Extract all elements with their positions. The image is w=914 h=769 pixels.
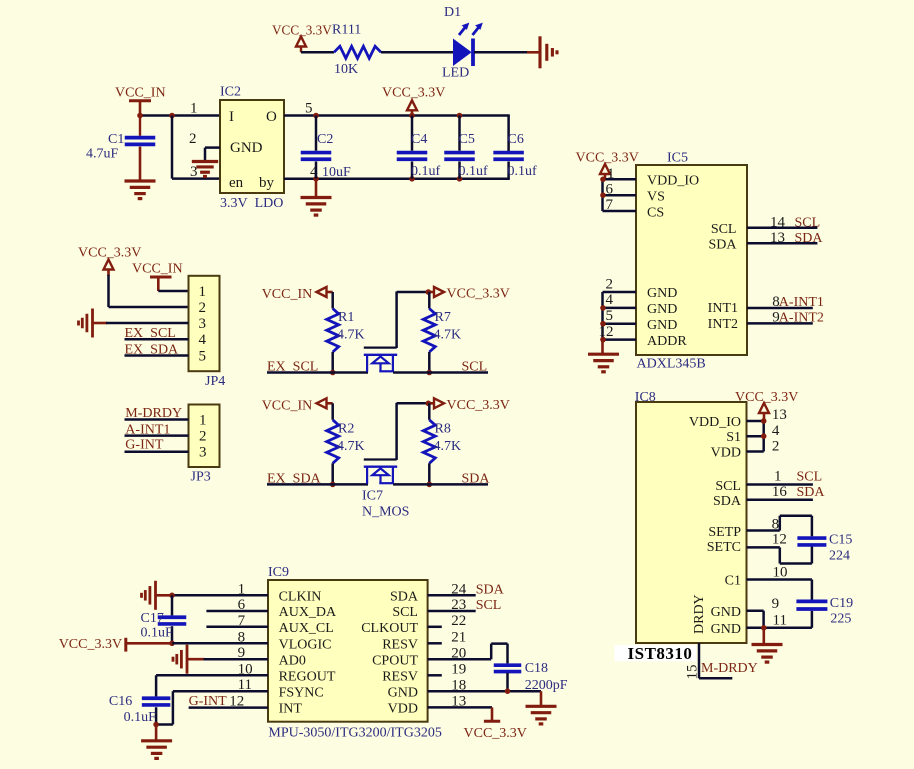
pin 15 DRDY wire (IC8) [685, 643, 733, 680]
svg-text:C6: C6 [508, 132, 524, 147]
pin 16 SDA (IC8) [747, 484, 826, 500]
svg-text:S1: S1 [726, 430, 741, 445]
svg-text:C19: C19 [830, 596, 853, 611]
svg-text:by: by [259, 175, 275, 191]
pin 13 SDA (IC5) [747, 230, 823, 246]
svg-text:0.1uf: 0.1uf [508, 164, 538, 179]
svg-text:19: 19 [451, 662, 466, 678]
wires IC5 ground pins 2/4/5/12 [603, 292, 637, 340]
svg-text:15: 15 [685, 665, 701, 680]
wire IC9 pin7 [206, 626, 268, 629]
svg-text:SCL: SCL [392, 605, 418, 620]
capacitor C2 10uF [301, 116, 351, 181]
svg-text:12: 12 [772, 532, 787, 548]
wire JP3 pin3 [125, 450, 189, 453]
svg-text:VCC_3.3V: VCC_3.3V [447, 398, 510, 413]
resistor R111 10K [332, 23, 381, 78]
svg-text:10: 10 [773, 565, 788, 581]
capacitor C18 2200pF [494, 661, 568, 693]
svg-text:16: 16 [772, 484, 788, 500]
power VCC_3.3V (R7) [428, 287, 510, 302]
wire VCC_3.3V to R111 [301, 51, 334, 54]
pin names IC8 right side [689, 415, 742, 637]
wire VCC_IN to R2 [331, 403, 334, 420]
svg-text:2: 2 [199, 300, 207, 316]
svg-text:13: 13 [772, 407, 787, 423]
svg-text:VDD_IO: VDD_IO [647, 174, 699, 189]
svg-text:I: I [229, 109, 234, 125]
power VCC_IN (at C1) [115, 86, 166, 116]
svg-text:4.7K: 4.7K [434, 328, 462, 343]
svg-text:C18: C18 [525, 661, 548, 676]
wire en branch [171, 116, 174, 179]
wire gate riser to VCC_3.3V rail [395, 292, 398, 349]
pin 8 A-INT1 (IC5) [747, 294, 824, 310]
pin names IC5 right [708, 222, 738, 332]
power VCC_3.3V (R8) [428, 398, 510, 413]
svg-text:RESV: RESV [382, 670, 418, 685]
capacitor C4 0.1uf [397, 116, 441, 180]
op-amp IC2 3.3V LDO body [220, 85, 284, 212]
svg-text:C15: C15 [829, 533, 852, 548]
svg-text:VLOGIC: VLOGIC [279, 638, 332, 653]
power VCC_3.3V (IC9 VDD) [464, 707, 527, 741]
svg-text:SCL: SCL [711, 222, 737, 237]
svg-text:4.7K: 4.7K [337, 328, 365, 343]
svg-text:AUX_DA: AUX_DA [279, 605, 337, 620]
svg-text:VS: VS [647, 190, 665, 205]
svg-text:VCC_3.3V: VCC_3.3V [447, 287, 510, 302]
op-amp IC9 MPU-3050 body [268, 565, 442, 741]
capacitor C16 0.1uF [109, 694, 170, 725]
wire gate riser to VCC_3.3V rail [395, 403, 398, 460]
ground (JP4 pin3) [79, 309, 108, 338]
svg-text:7: 7 [606, 197, 614, 213]
svg-text:SDA: SDA [708, 238, 737, 253]
pin 11 GND wire (IC8) [747, 613, 812, 629]
svg-text:VCC_3.3V: VCC_3.3V [59, 637, 122, 652]
svg-text:SETP: SETP [708, 525, 741, 540]
svg-text:DRDY: DRDY [692, 594, 707, 634]
wire IC2 output rail VCC_3.3V [284, 114, 510, 117]
pin 21 stub (IC9) [428, 642, 442, 645]
wire VCC_IN to JP4 pin1 [158, 290, 188, 293]
svg-text:SCL: SCL [797, 470, 823, 485]
ground (IC5) [588, 340, 619, 372]
svg-text:VCC_3.3V: VCC_3.3V [272, 23, 332, 38]
svg-text:6: 6 [606, 181, 614, 197]
junctions IC8 power [761, 418, 767, 424]
svg-text:10uF: 10uF [322, 165, 351, 180]
wire IC9 pin1 [172, 594, 268, 597]
svg-text:C2: C2 [317, 132, 333, 147]
svg-text:GND: GND [388, 685, 418, 700]
wire R8 to rail [428, 463, 431, 484]
capacitor C6 0.1uf [493, 132, 537, 179]
svg-text:AD0: AD0 [279, 653, 306, 668]
op-amp IC8 IST8310 body [635, 390, 747, 643]
ground (below C16) [141, 725, 172, 759]
wire SDA rail [393, 483, 488, 486]
svg-text:1: 1 [190, 101, 198, 117]
power VCC_3.3V (output rail) [382, 86, 445, 116]
svg-text:4: 4 [606, 292, 614, 308]
svg-text:C1: C1 [725, 574, 741, 589]
svg-text:VCC_IN: VCC_IN [262, 398, 313, 413]
pin numbers IC9 left [238, 581, 253, 693]
svg-text:R2: R2 [338, 421, 354, 436]
power VCC_3.3V (IC8) [735, 390, 798, 421]
wire R1 to rail [331, 352, 334, 373]
svg-text:2: 2 [772, 438, 780, 454]
connector JP3 body [189, 405, 220, 485]
svg-text:3: 3 [199, 445, 207, 461]
svg-text:C17: C17 [141, 611, 164, 626]
pin 24 SDA wire (IC9) [428, 582, 505, 597]
svg-text:SCL: SCL [476, 598, 502, 613]
svg-text:FSYNC: FSYNC [279, 685, 324, 700]
transistor N-MOS [364, 347, 397, 349]
wire R111 to D1 [381, 51, 454, 54]
svg-text:0.1uF: 0.1uF [141, 625, 174, 640]
svg-text:2: 2 [189, 131, 197, 147]
wire IC9 pin9 [204, 658, 269, 661]
svg-text:R1: R1 [338, 310, 354, 325]
svg-text:VDD: VDD [711, 446, 741, 461]
wires IC8 power pins 13/4/2 [747, 421, 764, 452]
svg-text:REGOUT: REGOUT [279, 670, 336, 685]
svg-text:INT2: INT2 [708, 317, 738, 332]
pin 18 GND wire (IC9) [428, 690, 541, 693]
svg-text:1: 1 [607, 166, 615, 182]
svg-text:5: 5 [606, 308, 614, 324]
svg-text:IC2: IC2 [220, 85, 241, 100]
svg-text:SDA: SDA [713, 494, 742, 509]
svg-text:IC7: IC7 [362, 489, 383, 504]
svg-text:GND: GND [647, 286, 677, 301]
wire R2 to rail [331, 463, 334, 484]
pin 14 SCL (IC5) [747, 214, 820, 230]
svg-text:1: 1 [199, 413, 207, 429]
svg-text:CLKOUT: CLKOUT [361, 621, 418, 636]
junction IC8 ground [761, 625, 767, 631]
svg-text:INT1: INT1 [708, 301, 738, 316]
svg-text:D1: D1 [444, 5, 461, 20]
svg-text:VCC_IN: VCC_IN [262, 287, 313, 302]
svg-text:CPOUT: CPOUT [372, 653, 418, 668]
svg-text:GND: GND [647, 302, 677, 317]
pin 12 SETC wire (IC8) [747, 532, 812, 564]
ground (LED cathode) [538, 36, 541, 68]
svg-text:5: 5 [199, 349, 207, 365]
svg-text:IST8310: IST8310 [628, 644, 693, 663]
resistor R8 4.7K [423, 403, 461, 463]
svg-text:VCC_3.3V: VCC_3.3V [78, 246, 141, 261]
svg-text:3: 3 [199, 316, 207, 332]
net label G-INT (IC9 INT) [189, 693, 245, 709]
junction at IC2 en branch [169, 113, 175, 119]
designator IC7 N_MOS [362, 489, 409, 520]
svg-text:0.1uf: 0.1uf [411, 164, 441, 179]
junction R2 [330, 482, 336, 488]
pin names IC5 left [647, 174, 699, 349]
junctions IC5 ground [600, 305, 606, 311]
pin 20 CPOUT wire (IC9) [428, 644, 508, 664]
pin numbers IC9 right [451, 582, 467, 710]
connector JP4 body [189, 276, 226, 389]
wire bottom rail (by/ground) [284, 178, 510, 181]
junction at C1 [137, 113, 143, 119]
svg-text:CLKIN: CLKIN [279, 590, 322, 605]
svg-text:VCC_IN: VCC_IN [115, 86, 166, 101]
pin 13 VDD wire (IC9) [428, 706, 492, 709]
pin names IC9 right [361, 590, 419, 717]
pin 9 GND wire (IC8) [747, 596, 780, 628]
wire VCC_IN to R1 [331, 292, 334, 309]
svg-text:AUX_CL: AUX_CL [279, 621, 334, 636]
wire IC9 pin10 REGOUT [156, 675, 268, 696]
pin 10 C1 wire (IC8) [747, 565, 812, 600]
transistor N-MOS [364, 458, 397, 460]
resistor R1 4.7K [327, 309, 365, 353]
wire EX_SCL rail [267, 371, 368, 374]
svg-text:5: 5 [305, 101, 313, 117]
pin numbers IC5 2/4/5/12 [599, 276, 614, 340]
svg-text:en: en [229, 175, 244, 191]
pin 2 wire and ground (IC2 GND) [192, 148, 220, 177]
wire IC9 pin6 [206, 610, 268, 613]
svg-text:VCC_3.3V: VCC_3.3V [382, 86, 445, 101]
junction R7 [426, 289, 432, 295]
svg-text:4.7uF: 4.7uF [86, 147, 119, 162]
svg-text:O: O [266, 109, 277, 125]
ground (IC9 AD0) [173, 645, 205, 674]
svg-text:IC5: IC5 [667, 151, 688, 166]
power VCC_IN (R1) [262, 287, 333, 302]
junction dots on output rail [313, 113, 319, 119]
junction C18 bottom [505, 688, 511, 694]
wire VCC_3.3V to JP4 pin2 [107, 275, 110, 307]
pin numbers IC8 13/4/2 [772, 407, 787, 454]
svg-text:21: 21 [451, 630, 466, 646]
wire EX_SDA rail [267, 483, 368, 486]
svg-text:10K: 10K [334, 62, 358, 77]
pin 8 SETP wire (IC8) [747, 516, 812, 537]
svg-text:11: 11 [773, 613, 787, 629]
svg-text:GND: GND [647, 318, 677, 333]
wire D1 to ground [474, 51, 527, 54]
svg-text:4: 4 [199, 332, 207, 348]
svg-text:LED: LED [442, 66, 469, 81]
svg-text:VDD: VDD [388, 702, 418, 717]
wire JP3 pin1 [125, 418, 189, 421]
wire IC9 pin11 FSYNC [156, 691, 268, 724]
wire VCC_IN rail to IC2 pin1 [140, 114, 220, 117]
pin 1 SCL (IC8) [747, 469, 823, 485]
pin 9 A-INT2 (IC5) [747, 310, 824, 326]
led D1 [442, 5, 483, 81]
svg-text:R8: R8 [435, 421, 451, 436]
ground (IC8) [752, 628, 783, 662]
wire right drop to C6 [507, 116, 510, 152]
svg-text:C4: C4 [411, 132, 427, 147]
svg-text:0.1uF: 0.1uF [124, 710, 157, 725]
svg-text:VDD_IO: VDD_IO [689, 415, 741, 430]
junction R8 [426, 401, 432, 407]
svg-text:C5: C5 [459, 132, 475, 147]
capacitor C5 0.1uf [444, 116, 488, 180]
wire IC9 pin8 [172, 642, 268, 645]
wire JP4 pin5 EX_SDA [125, 354, 189, 357]
junction R1 [330, 370, 336, 376]
svg-text:C1: C1 [108, 132, 124, 147]
capacitor C19 225 [796, 596, 853, 628]
svg-text:M-DRDY: M-DRDY [701, 661, 758, 676]
svg-text:SDA: SDA [476, 582, 505, 597]
svg-text:SDA: SDA [390, 590, 419, 605]
svg-text:12: 12 [599, 324, 614, 340]
svg-text:SETC: SETC [707, 540, 741, 555]
wire IC9 pin12 INT [189, 706, 268, 709]
power VCC_IN (R2) [262, 398, 333, 413]
pin 22 stub (IC9) [428, 626, 442, 629]
svg-text:VCC_IN: VCC_IN [132, 262, 183, 277]
resistor R7 4.7K [423, 292, 461, 352]
junctions IC5 power [600, 177, 606, 183]
svg-text:1: 1 [199, 284, 207, 300]
ground (IC9 pin1 CLKIN) [142, 581, 174, 610]
junction C17 top [169, 593, 175, 599]
svg-text:2: 2 [606, 276, 614, 292]
svg-text:22: 22 [451, 613, 466, 629]
junction C17 bottom [169, 641, 175, 647]
svg-text:N_MOS: N_MOS [362, 505, 409, 520]
pin 23 SCL wire (IC9) [428, 598, 502, 613]
svg-text:ADXL345B: ADXL345B [637, 357, 706, 372]
power VCC_3.3V (IC9 VLOGIC) [59, 637, 172, 652]
power VCC_IN (JP4) [132, 262, 183, 292]
svg-text:VCC_3.3V: VCC_3.3V [464, 726, 527, 741]
svg-text:4.7K: 4.7K [434, 439, 462, 454]
capacitor C1 4.7uF [86, 116, 155, 180]
pin numbers IC5 1/6/7 [606, 166, 615, 213]
svg-text:4.7K: 4.7K [337, 439, 365, 454]
svg-text:JP4: JP4 [205, 374, 225, 389]
op-amp IC5 ADXL345B body [636, 151, 747, 372]
svg-text:VCC_3.3V: VCC_3.3V [576, 151, 639, 166]
svg-text:R7: R7 [435, 310, 451, 325]
svg-text:MPU-3050/ITG3200/ITG3205: MPU-3050/ITG3200/ITG3205 [268, 726, 441, 741]
power VCC_3.3V (JP4) [78, 246, 141, 277]
wire JP3 pin2 [125, 434, 189, 437]
svg-text:CS: CS [647, 205, 664, 220]
pin names IC9 left [279, 590, 337, 717]
svg-text:4: 4 [772, 423, 780, 439]
svg-text:GND: GND [711, 605, 741, 620]
capacitor C17 0.1uF [141, 595, 187, 643]
svg-text:GND: GND [711, 622, 741, 637]
ground (below C1) [125, 179, 156, 182]
label IST8310 [615, 644, 697, 663]
svg-text:RESV: RESV [382, 638, 418, 653]
svg-text:224: 224 [829, 549, 850, 564]
svg-text:1: 1 [774, 469, 782, 485]
wire R7 to rail [428, 352, 431, 373]
capacitor C15 224 [797, 533, 852, 564]
wire SCL rail [393, 371, 488, 374]
power VCC_3.3V (top LED circuit) [272, 23, 332, 53]
pin 19 stub (IC9) [428, 674, 442, 677]
svg-text:C16: C16 [109, 694, 132, 709]
svg-text:IC8: IC8 [635, 390, 656, 405]
junction dots on bottom rail [313, 176, 319, 182]
pin numbers JP3 [199, 413, 207, 461]
wire JP4 pin4 EX_SCL [125, 338, 189, 341]
svg-text:3.3V LDO: 3.3V LDO [220, 196, 283, 211]
svg-text:JP3: JP3 [191, 470, 211, 485]
svg-text:GND: GND [230, 140, 263, 156]
svg-text:2: 2 [199, 429, 207, 445]
svg-text:9: 9 [772, 596, 780, 612]
svg-text:IC9: IC9 [268, 565, 289, 580]
svg-text:ADDR: ADDR [647, 334, 687, 349]
resistor R2 4.7K [327, 420, 365, 464]
svg-text:R111: R111 [332, 23, 361, 38]
svg-text:SDA: SDA [797, 485, 826, 500]
svg-text:INT: INT [279, 702, 303, 717]
svg-text:0.1uf: 0.1uf [459, 164, 489, 179]
wires IC5 power pins 1/6/7 [603, 179, 637, 211]
junction C16 bottom [153, 722, 159, 728]
svg-text:VCC_3.3V: VCC_3.3V [735, 390, 798, 405]
ground (IC9 pin18) [526, 691, 557, 724]
ground (below C2) [301, 179, 332, 215]
power VCC_3.3V (IC5) [576, 151, 639, 180]
pin numbers JP4 [199, 284, 207, 365]
svg-text:G-INT: G-INT [125, 438, 164, 453]
wire JP4 pin3 [106, 322, 189, 325]
svg-text:SCL: SCL [715, 479, 741, 494]
svg-text:225: 225 [830, 612, 851, 627]
